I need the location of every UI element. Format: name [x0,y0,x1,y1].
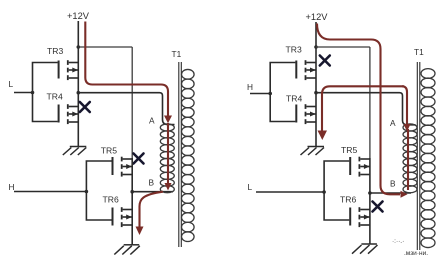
arrowhead at TR4 ground (right, red) [318,131,328,141]
transformer core (right) [416,62,418,250]
node: TR3/TR4 midpoint dot (right) [314,91,318,95]
svg-text:TR4: TR4 [47,92,63,102]
svg-text:TR3: TR3 [47,46,63,56]
gate bracket TR3/TR4 (right) [270,63,295,122]
current path: through primary A to B (left, red) [167,123,169,184]
svg-text:TR6: TR6 [340,195,356,205]
node: input L junction dot (right) [322,190,326,194]
node: input H junction dot (right) [268,92,272,96]
arrowhead at A (left, red) [164,116,172,124]
wire: +12V feed to TR5 drain, vertical (left) [131,47,133,158]
ground TR6 (left) [114,245,140,255]
gate bracket TR5/TR6 (right) [324,161,349,220]
svg-text:B: B [149,178,155,188]
node: TR3/TR4 midpoint dot (left) [77,91,81,95]
svg-text:TR3: TR3 [286,45,302,55]
wire: node to transformer tap A (left) [78,93,174,125]
transformer primary winding A-B (right) [403,124,417,193]
svg-text:T1: T1 [172,49,182,59]
wire: leg2 vertical TR5-TR6 (left) [131,158,133,245]
node: supply junction dot (right) [314,45,318,49]
wire: input L (left) [14,92,33,94]
transistor TR4 (left) [58,104,79,124]
X mark on TR3 (right, off) [320,56,330,66]
gate bracket TR5/TR6 (left) [86,161,111,220]
wire: +12V feed to TR5 drain, vertical (right) [369,47,371,158]
svg-text:A: A [149,116,155,126]
svg-text:·:··.·: ·:··.· [392,238,404,245]
X mark on TR4 (left, off) [80,102,90,112]
node: input L junction dot (left) [31,91,35,95]
transistor TR3 (right) [295,60,316,80]
transistor TR4 (right) [295,104,316,124]
svg-text:H: H [247,82,253,92]
node: input H junction dot (left) [85,190,89,194]
transistor TR5 (right) [349,157,370,177]
ground TR4 (right) [301,147,325,156]
node: TR5/TR6 midpoint dot B (right) [368,191,372,195]
current path: corner down to A (right, red) [402,86,407,124]
svg-text:+12V: +12V [306,12,329,22]
current path: +12V through TR5 to B (right, red) [317,24,400,195]
svg-text:+12V: +12V [67,11,90,21]
arrowhead at ground (left, red) [136,227,144,236]
arrowhead into B (right, red) [401,191,408,198]
wire: leg2 vertical TR5-TR6 (right) [369,158,371,244]
wire: node to transformer tap B (right) [370,192,411,194]
node: supply junction dot (left) [77,45,81,49]
svg-text:B: B [390,179,396,189]
arrowhead at B (left, red) [165,183,172,191]
arrowhead at A (right, red) [404,124,411,132]
X mark on TR5 (left, off) [134,154,144,164]
transformer primary winding A-B (left) [160,124,174,193]
transistor TR5 (left) [112,157,133,177]
current path: A to TR4 branch horizontal (right, red) [322,86,404,131]
node: TR5/TR6 midpoint dot B (left) [130,190,134,194]
transistor TR6 (right) [349,207,370,227]
svg-text:TR5: TR5 [101,146,117,156]
wire: +12V supply vertical (left leg1) [77,21,79,147]
ground TR4 (left) [63,147,87,156]
wire: input L (right) [256,191,324,193]
svg-text:L: L [248,182,253,192]
ground TR6 (right) [352,244,378,254]
svg-text:TR4: TR4 [286,94,302,104]
current path: through primary at A-B (right, red) [407,129,409,190]
wire: +12V supply vertical (right leg1) [315,22,317,147]
transformer core (left) [178,62,180,247]
current path: B through TR6 to ground (left, red) [140,192,164,227]
svg-text:L: L [9,79,14,89]
gate bracket TR3/TR4 (left) [33,63,58,122]
svg-text:T1: T1 [414,47,424,57]
wire: node to transformer tap B (left) [132,191,173,193]
wire: input H (left) [14,191,86,193]
svg-text:.мзи·ни.: .мзи·ни. [404,250,428,257]
wire: +12V feed to TR5 drain, horizontal (left) [78,46,132,48]
transformer secondary winding (left) [182,69,195,241]
svg-text:TR6: TR6 [103,195,119,205]
svg-text:TR5: TR5 [341,145,357,155]
transistor TR3 (left) [58,60,79,80]
svg-text:A: A [390,118,396,128]
svg-text:H: H [9,182,15,192]
X mark on TR6 (right, off) [373,202,383,212]
wire: node to transformer tap A (right) [316,93,416,125]
wire: +12V feed to TR5 drain, horizontal (right) [316,46,370,48]
current path: +12V through TR3 to A (left, red) [85,22,168,117]
wire: input H (right) [250,93,270,95]
transistor TR6 (left) [112,207,133,227]
transformer secondary winding (right) [421,69,435,248]
